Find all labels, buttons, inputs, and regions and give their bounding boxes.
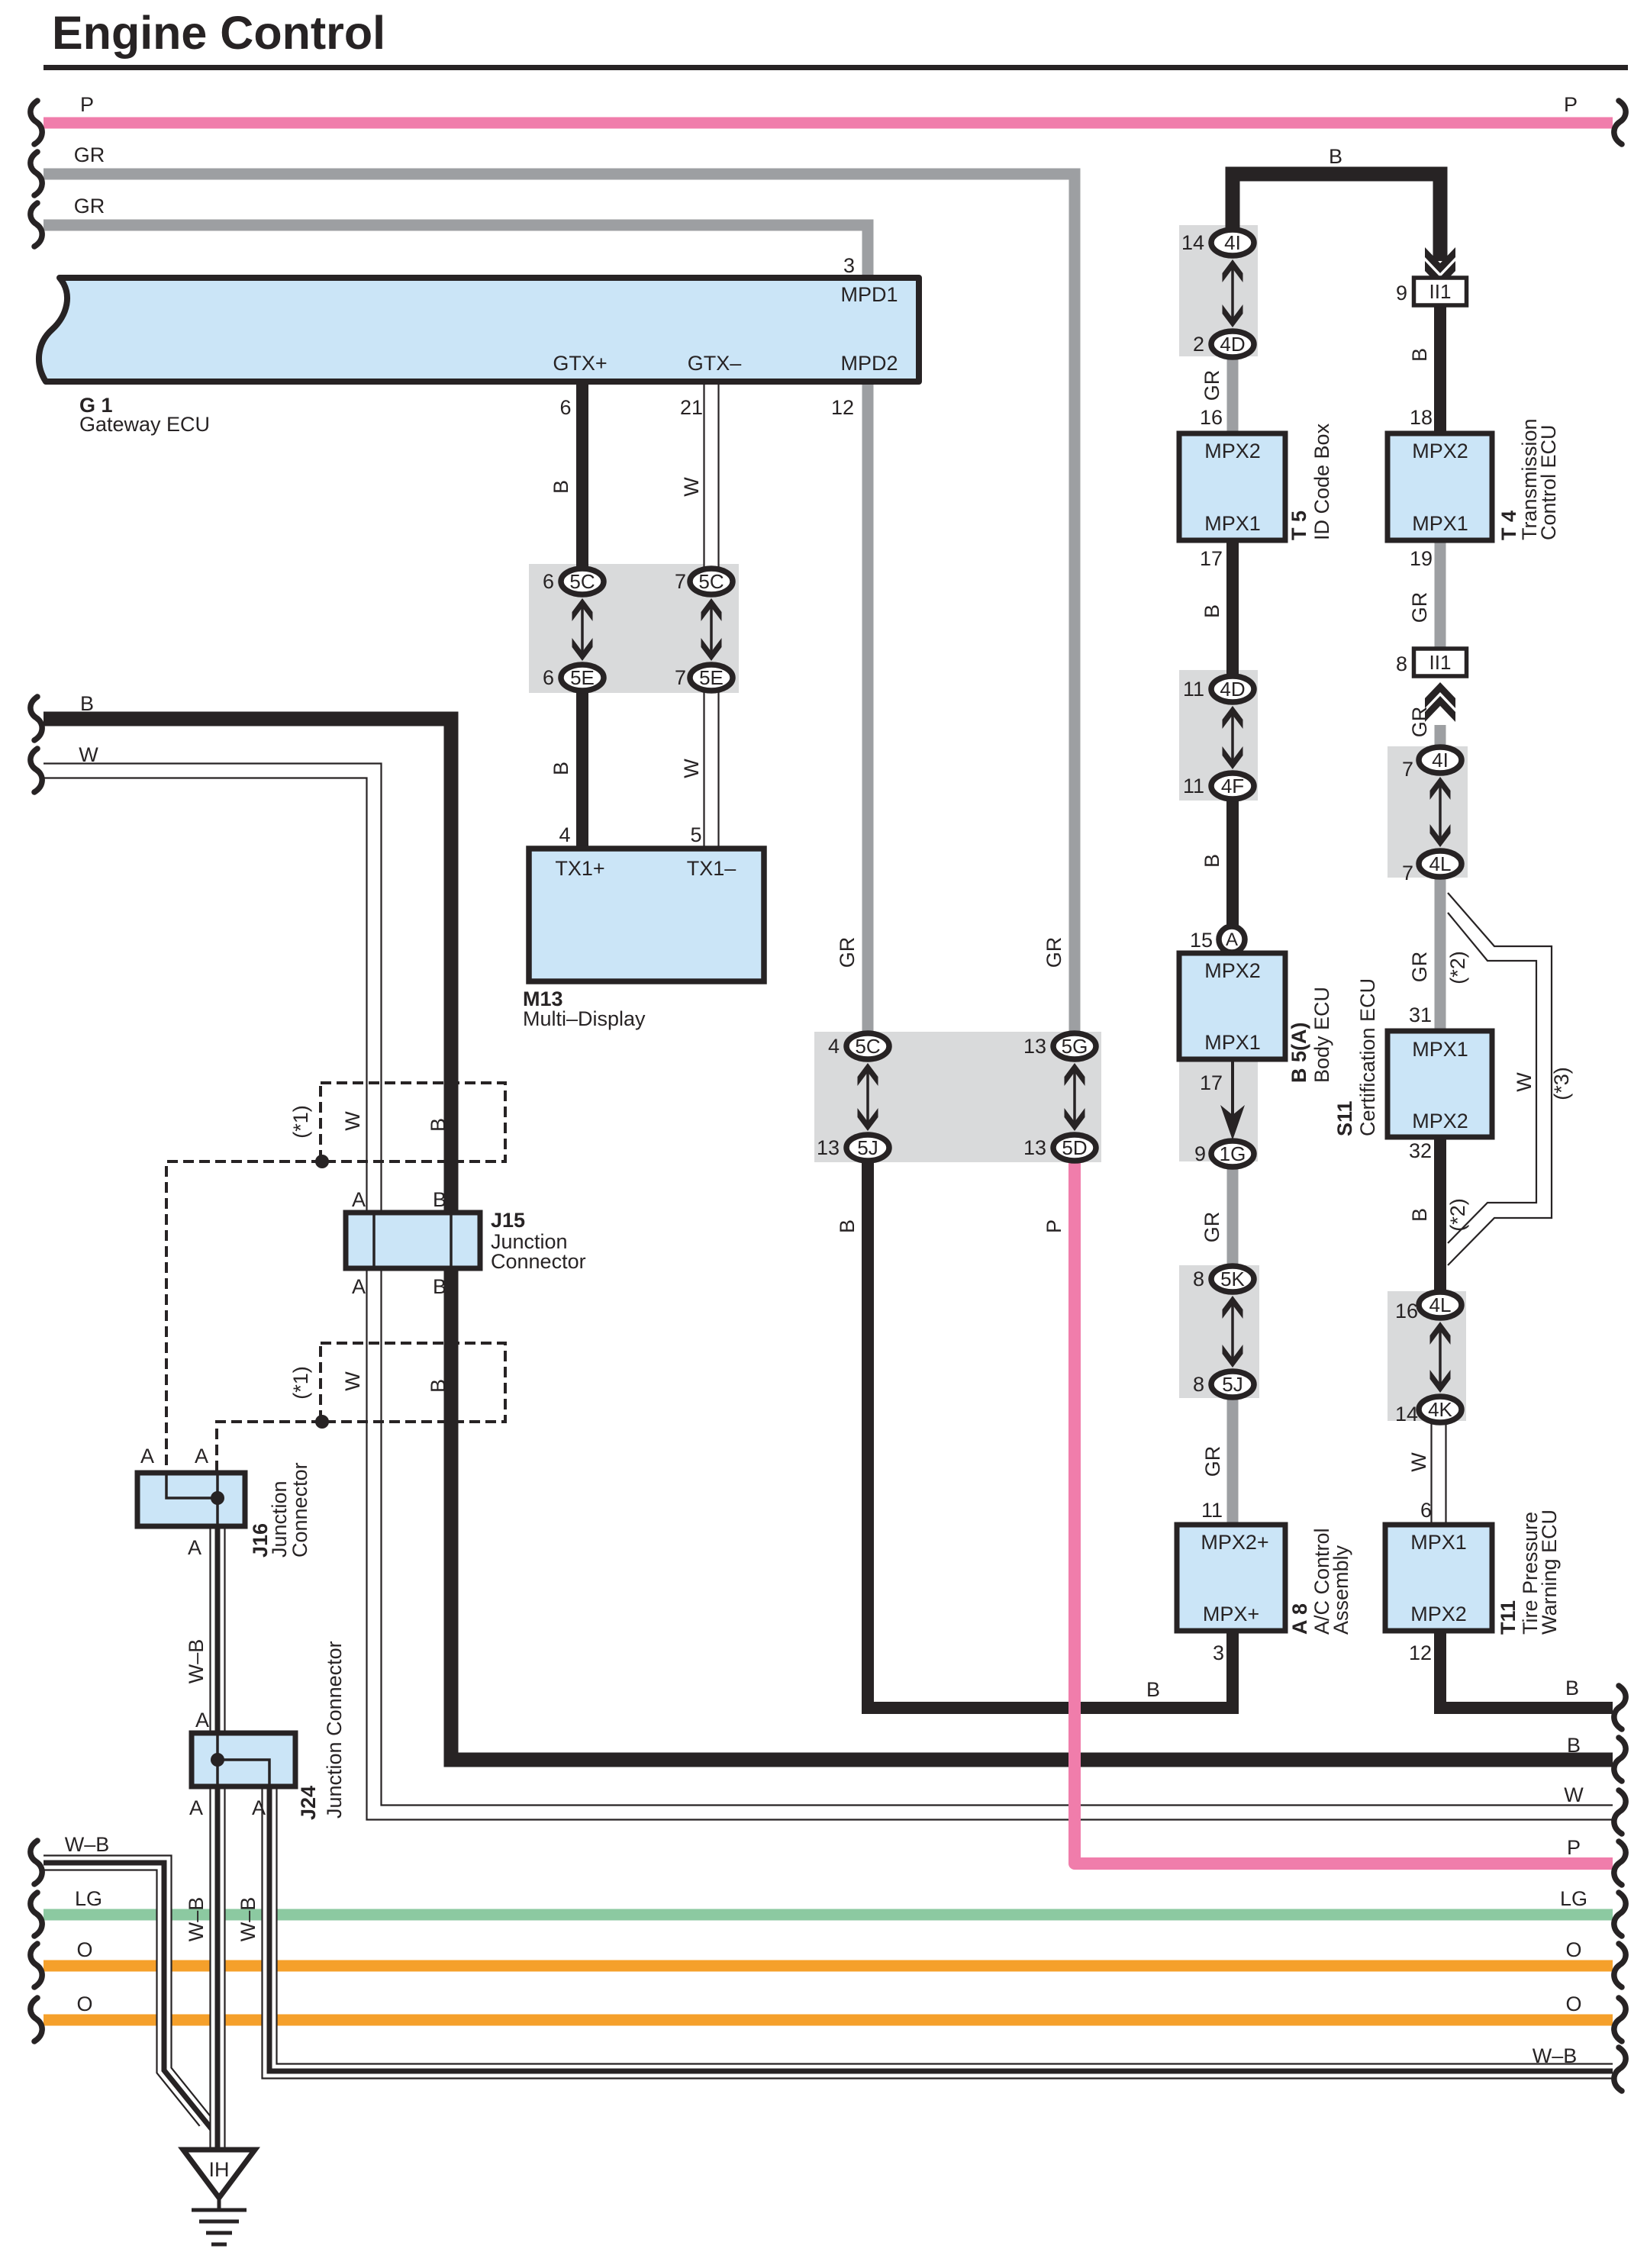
wire GR 2 4D to T5 MPX2 pin 16 bbox=[1227, 344, 1239, 436]
wire P top (pink) bbox=[44, 118, 1613, 129]
svg-text:MPD1: MPD1 bbox=[840, 283, 898, 306]
svg-text:13: 13 bbox=[817, 1136, 840, 1159]
svg-text:(*2): (*2) bbox=[1446, 1198, 1469, 1232]
junction connector J15 box bbox=[346, 1213, 480, 1268]
svg-text:1G: 1G bbox=[1220, 1142, 1246, 1165]
svg-text:4L: 4L bbox=[1429, 852, 1452, 875]
svg-text:MPX1: MPX1 bbox=[1410, 1531, 1467, 1554]
connector block (4D/4F) gray background bbox=[1179, 670, 1258, 801]
svg-text:13: 13 bbox=[1023, 1136, 1046, 1159]
connector 13 5J bbox=[846, 1135, 889, 1161]
svg-text:W: W bbox=[680, 759, 703, 778]
svg-text:B 5(A): B 5(A) bbox=[1288, 1023, 1310, 1084]
in-line connector II1 pin 9 bbox=[1414, 278, 1467, 305]
shielded section (*1) upper dashed box bbox=[321, 1083, 505, 1161]
left brace GR2 bbox=[31, 203, 42, 246]
svg-text:MPX2: MPX2 bbox=[1412, 1110, 1468, 1132]
svg-text:B: B bbox=[550, 762, 572, 775]
svg-text:A: A bbox=[140, 1445, 154, 1467]
svg-text:(*3): (*3) bbox=[1550, 1067, 1573, 1100]
svg-text:5: 5 bbox=[690, 823, 701, 846]
svg-text:Gateway ECU: Gateway ECU bbox=[79, 413, 210, 436]
svg-text:12: 12 bbox=[1409, 1641, 1432, 1664]
body ECU B5(A) box bbox=[1179, 953, 1285, 1059]
in-line connector II1 pin 8 bbox=[1414, 649, 1467, 676]
connector block (16 4L/14 4K) gray background bbox=[1388, 1291, 1466, 1421]
wire GR 7 4L to S11 MPX1 pin 31 bbox=[1435, 864, 1446, 1033]
svg-text:11: 11 bbox=[1201, 1499, 1223, 1522]
svg-text:B: B bbox=[433, 1275, 446, 1298]
left brace P bbox=[31, 101, 42, 144]
right brace P top bbox=[1614, 101, 1626, 144]
left brace W-B bbox=[31, 1841, 42, 1884]
svg-text:8: 8 bbox=[1193, 1373, 1204, 1396]
svg-text:B: B bbox=[1146, 1678, 1160, 1701]
wire W GTX- pin 21 to 7 5C bbox=[703, 382, 719, 581]
svg-text:A: A bbox=[352, 1188, 366, 1211]
svg-text:5C: 5C bbox=[855, 1035, 880, 1058]
svg-text:5E: 5E bbox=[570, 666, 595, 689]
svg-text:5G: 5G bbox=[1062, 1035, 1088, 1058]
svg-text:J15: J15 bbox=[491, 1209, 525, 1232]
svg-text:5D: 5D bbox=[1062, 1136, 1087, 1159]
svg-text:8: 8 bbox=[1193, 1268, 1204, 1290]
left brace O lower bbox=[31, 1998, 42, 2041]
svg-text:TX1–: TX1– bbox=[687, 857, 736, 880]
svg-text:O: O bbox=[1565, 1993, 1581, 2015]
svg-text:7: 7 bbox=[675, 666, 686, 689]
svg-text:7: 7 bbox=[675, 570, 686, 593]
svg-text:ID Code Box: ID Code Box bbox=[1310, 423, 1333, 540]
svg-text:8: 8 bbox=[1396, 652, 1407, 675]
svg-text:Warning ECU: Warning ECU bbox=[1538, 1509, 1561, 1635]
svg-text:Body ECU: Body ECU bbox=[1310, 987, 1333, 1083]
svg-text:T 5: T 5 bbox=[1288, 511, 1310, 540]
connector 16 4L bbox=[1439, 1326, 1442, 1388]
wire LG left edge to right edge bbox=[44, 1909, 1613, 1921]
connector 11 4D bbox=[1231, 710, 1234, 765]
svg-text:Control ECU: Control ECU bbox=[1537, 424, 1560, 540]
svg-text:B: B bbox=[550, 480, 572, 494]
node A pin 15 bbox=[1219, 926, 1245, 952]
svg-text:O: O bbox=[1565, 1938, 1581, 1961]
left brace GR1 bbox=[31, 152, 42, 195]
svg-text:4I: 4I bbox=[1432, 749, 1449, 772]
svg-text:3: 3 bbox=[843, 254, 855, 277]
wire GR #1 (to 5G) bbox=[44, 174, 1075, 1046]
wire GR #2 (to MPD1 pin 3) bbox=[44, 225, 868, 278]
connector block (7 4I/4L) gray background bbox=[1388, 746, 1468, 878]
svg-text:J24: J24 bbox=[297, 1786, 320, 1820]
svg-text:5C: 5C bbox=[698, 570, 724, 593]
wire B T4 II1 pin 9 to MPX2 pin 18 bbox=[1434, 305, 1446, 436]
right brace W bbox=[1614, 1790, 1626, 1834]
svg-text:W–B: W–B bbox=[65, 1833, 110, 1856]
svg-text:T11: T11 bbox=[1497, 1600, 1520, 1635]
connector 14 4K bbox=[1419, 1397, 1462, 1422]
wire B top link between T5 and T4 columns bbox=[1233, 174, 1440, 261]
svg-text:T 4: T 4 bbox=[1497, 511, 1520, 540]
svg-text:B: B bbox=[836, 1219, 859, 1233]
svg-text:IH: IH bbox=[209, 2158, 230, 2181]
svg-text:GR: GR bbox=[1408, 592, 1431, 623]
svg-text:W: W bbox=[1407, 1452, 1430, 1472]
svg-text:5J: 5J bbox=[1222, 1373, 1243, 1396]
alternate wire W (*3) bypass bracket around S11 bbox=[1448, 913, 1536, 1243]
svg-text:P: P bbox=[1043, 1219, 1065, 1233]
svg-text:6: 6 bbox=[559, 396, 571, 419]
svg-text:7: 7 bbox=[1402, 862, 1413, 884]
svg-text:MPX1: MPX1 bbox=[1412, 512, 1468, 535]
svg-text:2: 2 bbox=[1193, 333, 1204, 356]
svg-text:GTX+: GTX+ bbox=[553, 352, 607, 375]
svg-text:P: P bbox=[1567, 1836, 1581, 1859]
svg-text:A: A bbox=[352, 1275, 366, 1298]
svg-text:(*1): (*1) bbox=[289, 1366, 312, 1400]
wire GR MPD2 pin 12 down to 4 5C bbox=[862, 382, 874, 1046]
connector 14 4I bbox=[1231, 264, 1234, 323]
svg-text:Certification ECU: Certification ECU bbox=[1356, 978, 1379, 1136]
svg-text:32: 32 bbox=[1409, 1139, 1432, 1162]
connector 13 5D bbox=[1053, 1135, 1096, 1161]
connector block (4I/4D) gray background bbox=[1179, 225, 1258, 356]
wire O upper left edge to right edge bbox=[44, 1960, 1613, 1972]
svg-text:12: 12 bbox=[831, 396, 854, 419]
right brace B bus bbox=[1614, 1738, 1626, 1781]
svg-text:9: 9 bbox=[1194, 1142, 1206, 1165]
connector 7 4I bbox=[1439, 781, 1442, 842]
connector 13 5G bbox=[1073, 1068, 1076, 1126]
svg-text:5K: 5K bbox=[1220, 1268, 1245, 1290]
right brace B T11 bbox=[1614, 1686, 1626, 1729]
wire W-B from left edge joining ground wire bbox=[44, 1863, 205, 2121]
wire B 11 4F to node A pin 15 bbox=[1226, 786, 1239, 939]
svg-text:MPD2: MPD2 bbox=[840, 352, 898, 375]
svg-text:Engine Control: Engine Control bbox=[52, 7, 385, 59]
connector 7 4L bbox=[1419, 851, 1462, 877]
svg-text:B: B bbox=[1201, 604, 1223, 618]
gateway ECU G1 box bbox=[39, 278, 919, 382]
svg-text:LG: LG bbox=[75, 1887, 102, 1910]
svg-text:II1: II1 bbox=[1429, 280, 1452, 303]
wire B GTX+ pin 6 to 6 5C bbox=[576, 382, 588, 581]
svg-text:A: A bbox=[252, 1796, 266, 1819]
svg-text:MPX1: MPX1 bbox=[1204, 512, 1261, 535]
svg-text:B: B bbox=[427, 1379, 450, 1393]
right brace W-B bbox=[1614, 2047, 1626, 2091]
connector block (5C/5E) gray background bbox=[529, 564, 739, 693]
svg-text:4K: 4K bbox=[1428, 1398, 1452, 1421]
A/C control assembly A8 box bbox=[1177, 1525, 1285, 1631]
wire W 7 5E to M13 pin 5 bbox=[703, 678, 719, 849]
svg-text:GR: GR bbox=[1408, 707, 1431, 738]
svg-text:A: A bbox=[195, 1445, 208, 1467]
svg-text:GR: GR bbox=[1201, 1446, 1224, 1477]
dashed shield drain wire to J16 pin A right bbox=[217, 1422, 322, 1473]
junction dot lower shield bbox=[315, 1415, 329, 1429]
svg-text:TX1+: TX1+ bbox=[555, 857, 604, 880]
svg-text:5C: 5C bbox=[569, 570, 595, 593]
connector 6 5E bbox=[561, 665, 604, 691]
svg-text:A 8: A 8 bbox=[1288, 1603, 1311, 1635]
svg-text:Connector: Connector bbox=[288, 1462, 311, 1558]
svg-text:Multi–Display: Multi–Display bbox=[523, 1007, 646, 1030]
svg-text:16: 16 bbox=[1395, 1300, 1418, 1322]
svg-text:MPX2: MPX2 bbox=[1204, 440, 1261, 462]
connector 7 5E bbox=[690, 665, 733, 691]
connector 6 5C bbox=[581, 603, 584, 656]
svg-text:O: O bbox=[76, 1938, 92, 1961]
svg-text:4: 4 bbox=[828, 1035, 840, 1058]
svg-text:(*2): (*2) bbox=[1446, 951, 1469, 984]
wire B T5 MPX1 pin 17 to 11 4D bbox=[1226, 538, 1239, 689]
connector block (5C/5J/5G/5D) gray background bbox=[814, 1032, 1101, 1162]
svg-text:5E: 5E bbox=[699, 666, 724, 689]
svg-text:GR: GR bbox=[1201, 1212, 1223, 1243]
connector 11 4F bbox=[1211, 773, 1254, 799]
wire W left edge down to right edge bbox=[44, 771, 1613, 1812]
svg-text:MPX2: MPX2 bbox=[1204, 959, 1261, 982]
svg-text:MPX+: MPX+ bbox=[1203, 1603, 1259, 1625]
connector block (5K/5J) gray background bbox=[1179, 1265, 1259, 1398]
svg-text:18: 18 bbox=[1410, 406, 1433, 429]
svg-text:B: B bbox=[1201, 854, 1223, 868]
connector 4 5C bbox=[866, 1068, 869, 1126]
svg-text:6: 6 bbox=[1420, 1499, 1432, 1522]
svg-text:W: W bbox=[79, 743, 98, 766]
junction connector J16 box bbox=[137, 1473, 245, 1526]
connector 9 1G bbox=[1211, 1141, 1254, 1167]
svg-text:MPX1: MPX1 bbox=[1412, 1038, 1468, 1061]
wire W-B from J16 through J24 to ground IH bbox=[209, 1526, 225, 2150]
svg-text:7: 7 bbox=[1402, 758, 1413, 781]
svg-text:GR: GR bbox=[1043, 937, 1065, 968]
page link arrow out of II1 pin 8 bbox=[1425, 682, 1455, 708]
right brace O lower bbox=[1614, 1998, 1626, 2041]
svg-text:B: B bbox=[80, 692, 94, 715]
wire GR 9 1G to 8 5K bbox=[1227, 1154, 1239, 1279]
left brace LG bbox=[31, 1893, 42, 1936]
wire W 14 4K to T11 MPX1 pin 6 bbox=[1430, 1409, 1446, 1526]
wire B node A to B5 MPX2 pin 15 bbox=[1226, 939, 1239, 955]
svg-text:Connector: Connector bbox=[491, 1250, 586, 1273]
ID code box T5 bbox=[1179, 433, 1285, 540]
svg-text:11: 11 bbox=[1183, 678, 1204, 701]
shielded section (*1) lower dashed box bbox=[321, 1343, 505, 1422]
wire B from 13 5J down and right to A8 pin 3 bbox=[868, 1148, 1233, 1708]
svg-text:GR: GR bbox=[1201, 370, 1223, 401]
svg-text:A: A bbox=[188, 1536, 201, 1559]
svg-text:GR: GR bbox=[836, 937, 859, 968]
svg-text:W: W bbox=[680, 477, 703, 497]
wire B 6 5E to M13 pin 4 bbox=[576, 678, 588, 849]
svg-text:W: W bbox=[1513, 1072, 1536, 1092]
wire B main bus left edge down to right edge bbox=[44, 719, 1613, 1760]
svg-text:11: 11 bbox=[1183, 775, 1204, 797]
svg-text:A: A bbox=[195, 1709, 209, 1732]
svg-text:14: 14 bbox=[1395, 1403, 1418, 1426]
right brace P bbox=[1614, 1841, 1626, 1885]
svg-text:W: W bbox=[341, 1371, 364, 1391]
junction dot upper shield bbox=[315, 1155, 329, 1168]
certification ECU S11 box bbox=[1388, 1031, 1492, 1137]
svg-text:31: 31 bbox=[1409, 1004, 1432, 1026]
svg-text:A: A bbox=[189, 1796, 203, 1819]
svg-text:GR: GR bbox=[1408, 952, 1431, 983]
svg-text:B: B bbox=[1567, 1734, 1581, 1757]
wire GR T4 MPX1 pin 19 to II1 pin 8 bbox=[1435, 538, 1446, 649]
svg-text:S11: S11 bbox=[1333, 1100, 1356, 1136]
svg-text:W–B: W–B bbox=[1533, 2044, 1578, 2067]
ground IH bbox=[183, 2150, 255, 2198]
svg-text:W: W bbox=[1564, 1783, 1584, 1806]
svg-text:B: B bbox=[427, 1118, 450, 1132]
svg-text:B: B bbox=[1408, 348, 1431, 362]
svg-text:(*1): (*1) bbox=[289, 1105, 312, 1139]
svg-text:W–B: W–B bbox=[185, 1639, 208, 1684]
svg-text:O: O bbox=[76, 1993, 92, 2015]
svg-text:Junction Connector: Junction Connector bbox=[323, 1641, 346, 1819]
svg-text:Assembly: Assembly bbox=[1330, 1545, 1352, 1635]
svg-text:P: P bbox=[1564, 93, 1578, 116]
svg-text:W–B: W–B bbox=[185, 1897, 208, 1942]
connector 8 5K bbox=[1231, 1300, 1234, 1363]
svg-text:MPX1: MPX1 bbox=[1204, 1031, 1261, 1054]
svg-text:16: 16 bbox=[1200, 406, 1223, 429]
junction connector J24 internal junction dot bbox=[211, 1753, 224, 1767]
svg-text:B: B bbox=[1408, 1208, 1431, 1222]
svg-text:GTX–: GTX– bbox=[688, 352, 742, 375]
wire O lower left edge to right edge bbox=[44, 2015, 1613, 2026]
svg-text:MPX2+: MPX2+ bbox=[1201, 1531, 1268, 1554]
svg-text:6: 6 bbox=[543, 570, 554, 593]
connector block (1G) gray background bbox=[1179, 1062, 1258, 1161]
svg-text:4L: 4L bbox=[1429, 1293, 1452, 1316]
tire pressure warning ECU T11 box bbox=[1385, 1525, 1492, 1631]
right brace LG bbox=[1614, 1893, 1626, 1936]
svg-text:5J: 5J bbox=[857, 1136, 878, 1159]
svg-text:6: 6 bbox=[543, 666, 554, 689]
svg-text:4I: 4I bbox=[1224, 231, 1241, 254]
svg-text:B: B bbox=[433, 1188, 446, 1211]
transmission control ECU T4 box bbox=[1388, 433, 1492, 540]
svg-text:3: 3 bbox=[1213, 1641, 1224, 1664]
svg-text:MPX2: MPX2 bbox=[1410, 1603, 1467, 1625]
svg-text:17: 17 bbox=[1200, 547, 1223, 570]
left brace B bus bbox=[31, 697, 42, 740]
svg-text:A: A bbox=[1226, 929, 1238, 950]
svg-text:GR: GR bbox=[74, 143, 105, 166]
wire B T11 MPX2 pin 12 to right edge bbox=[1440, 1631, 1613, 1708]
dashed shield drain wire to J16 pin A left bbox=[166, 1161, 322, 1473]
svg-text:4F: 4F bbox=[1221, 775, 1244, 797]
connector 2 4D bbox=[1211, 331, 1254, 357]
svg-text:B: B bbox=[1565, 1677, 1579, 1699]
svg-text:4D: 4D bbox=[1220, 678, 1245, 701]
svg-text:14: 14 bbox=[1181, 231, 1204, 254]
svg-text:13: 13 bbox=[1023, 1035, 1046, 1058]
wire P from 13 5D down and right to right edge bbox=[1075, 1148, 1613, 1864]
svg-text:GR: GR bbox=[74, 195, 105, 217]
svg-text:17: 17 bbox=[1200, 1071, 1223, 1094]
multi-display M13 box bbox=[529, 849, 764, 981]
left brace W bbox=[31, 749, 42, 792]
svg-text:P: P bbox=[80, 93, 94, 116]
svg-text:MPX2: MPX2 bbox=[1412, 440, 1468, 462]
svg-text:19: 19 bbox=[1410, 547, 1433, 570]
svg-text:W: W bbox=[341, 1111, 364, 1131]
svg-text:B: B bbox=[1329, 145, 1342, 168]
left brace O upper bbox=[31, 1944, 42, 1987]
one-way arrow into 1G bbox=[1231, 1062, 1234, 1116]
svg-text:Junction: Junction bbox=[268, 1480, 291, 1558]
wire GR II1 pin 8 to 7 4I bbox=[1435, 725, 1446, 760]
svg-text:9: 9 bbox=[1396, 282, 1407, 304]
junction connector J24 box bbox=[192, 1733, 295, 1786]
svg-text:LG: LG bbox=[1560, 1887, 1587, 1910]
svg-text:4D: 4D bbox=[1220, 333, 1245, 356]
svg-text:II1: II1 bbox=[1429, 651, 1452, 674]
connector 7 5C bbox=[710, 603, 713, 656]
svg-text:21: 21 bbox=[680, 396, 703, 419]
svg-text:15: 15 bbox=[1190, 929, 1213, 952]
svg-text:4: 4 bbox=[559, 823, 570, 846]
page link arrow into II1 pin 9 bbox=[1425, 247, 1455, 273]
connector 8 5J bbox=[1211, 1371, 1254, 1397]
svg-text:W–B: W–B bbox=[237, 1897, 259, 1942]
junction connector J16 internal junction dot bbox=[211, 1491, 224, 1505]
wire B S11 MPX2 pin 32 to 16 4L bbox=[1434, 1136, 1446, 1305]
wire W-B branch from J24 right to right edge bbox=[269, 1786, 1613, 2071]
right brace O upper bbox=[1614, 1944, 1626, 1987]
wire GR 8 5J to A8 MPX2+ pin 11 bbox=[1227, 1384, 1239, 1526]
